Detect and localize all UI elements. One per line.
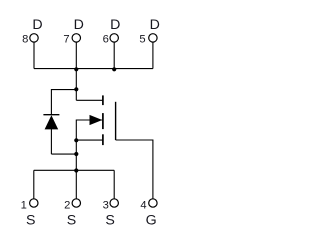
svg-text:D: D <box>110 17 120 33</box>
pin 6 circle <box>110 34 118 42</box>
junction source lead <box>74 138 78 142</box>
wire diode anode to source node <box>51 153 76 155</box>
wire pin6 to bus <box>113 42 115 69</box>
wire drain bus <box>34 68 153 70</box>
svg-text:7: 7 <box>63 33 69 45</box>
svg-text:G: G <box>146 213 157 229</box>
wire pin8 to bus <box>33 42 35 69</box>
diode D1 cathode bar <box>43 114 59 116</box>
svg-text:D: D <box>32 17 42 33</box>
diode D1 triangle <box>45 115 59 129</box>
transistor Q1 body arrow <box>90 115 103 125</box>
svg-text:2: 2 <box>64 200 70 212</box>
wire gate bend to pin4 <box>116 140 153 199</box>
junction pin7 on drain bus <box>74 67 78 71</box>
svg-text:4: 4 <box>140 200 146 212</box>
wire pin7 to bus <box>75 42 77 69</box>
pin 1 circle <box>30 199 38 207</box>
svg-text:3: 3 <box>103 200 109 212</box>
junction pin2 on source bus <box>74 168 78 172</box>
wire pin3 to source bus <box>113 170 115 199</box>
transistor Q1 channel bar source segment <box>102 134 104 145</box>
transistor Q1 channel bar drain segment <box>102 95 104 105</box>
junction diode branch <box>74 87 78 91</box>
wire pin1 to source bus <box>33 170 35 199</box>
wire drain lead <box>76 99 102 101</box>
pin 2 circle <box>72 199 80 207</box>
wire source bus <box>34 169 114 171</box>
pin 8 circle <box>30 34 38 42</box>
svg-text:D: D <box>150 17 160 33</box>
pin 3 circle <box>110 199 118 207</box>
svg-text:5: 5 <box>139 33 145 45</box>
pin 4 circle <box>149 199 157 207</box>
svg-text:8: 8 <box>22 33 28 45</box>
svg-text:6: 6 <box>103 33 109 45</box>
wire branch to diode cathode <box>51 90 76 115</box>
transistor Q1 channel bar body segment <box>102 113 104 129</box>
transistor Q1 gate bar <box>115 102 117 140</box>
svg-text:S: S <box>26 213 35 229</box>
wire drain vertical to MOSFET <box>75 69 77 101</box>
wire source lead <box>76 139 102 141</box>
wire body connection <box>76 120 102 199</box>
wire pin5 to bus <box>152 42 154 69</box>
svg-text:S: S <box>105 213 114 229</box>
junction diode anode link <box>74 152 78 156</box>
pin 5 circle <box>149 34 157 42</box>
svg-text:1: 1 <box>21 200 27 212</box>
wire diode anode down <box>50 129 52 154</box>
svg-text:S: S <box>67 213 76 229</box>
junction pin6 on drain bus <box>112 67 116 71</box>
svg-text:D: D <box>74 17 84 33</box>
pin 7 circle <box>72 34 80 42</box>
